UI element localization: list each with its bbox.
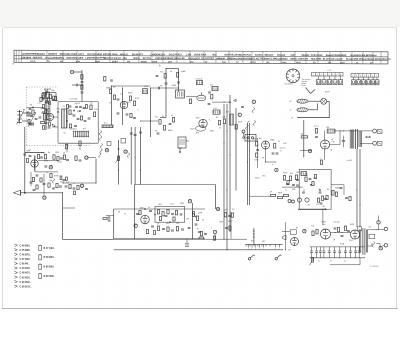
capacitor C39 (256, 149, 259, 150)
junction dot d (24, 192, 25, 193)
wire det out (266, 149, 277, 162)
label MU (27, 150, 30, 152)
resistor R84 (154, 231, 156, 235)
svg-text:P0NC: P0NC (283, 173, 288, 175)
svg-text:8N/BBm: 8N/BBm (227, 58, 236, 60)
capacitor C78 (77, 118, 80, 119)
svg-text:UE9e: UE9e (296, 172, 300, 174)
capacitor C21 (110, 80, 113, 81)
svg-text:6m/: 6m/ (190, 62, 194, 64)
capacitor C73 (65, 186, 68, 187)
dense det marks (60, 176, 67, 181)
wire conv vert c (178, 69, 180, 93)
trim arrow (28, 113, 36, 127)
transformer T3 secondary (359, 131, 361, 147)
spine blob a (43, 93, 48, 99)
resistor R22 (113, 95, 115, 99)
wire right drop a (356, 149, 358, 227)
tube V9 detector (262, 141, 270, 149)
capacitor C27 (134, 134, 137, 135)
svg-text:C 55 998/..: C 55 998/.. (20, 250, 32, 252)
svg-text:4x: 4x (344, 261, 346, 263)
svg-text:HpsM: HpsM (57, 162, 62, 164)
svg-text:6: 6 (332, 75, 333, 77)
wire conv join (151, 87, 179, 89)
wire psu left v (285, 222, 287, 250)
transformer T1 box (176, 90, 185, 98)
wire det pair a (248, 121, 250, 205)
junction dot e (118, 149, 119, 150)
tube V1 mixer (46, 113, 53, 120)
label R49t (314, 125, 319, 127)
resistor R32 (159, 120, 161, 125)
svg-text:78a: 78a (322, 206, 325, 208)
svg-text:2MD.: 2MD. (253, 139, 258, 141)
svg-text:1: 1 (279, 249, 280, 251)
wire am h (212, 101, 230, 103)
svg-text:E0: E0 (30, 105, 32, 107)
small box sw2 (121, 138, 126, 143)
svg-text:6: 6 (255, 249, 256, 251)
svg-text:a53: a53 (28, 150, 31, 152)
capacitor C81 (45, 101, 48, 102)
wire junction dots (62, 68, 361, 250)
wire top cap (324, 130, 326, 140)
svg-text:58BsTL411TP: 58BsTL411TP (247, 57, 262, 60)
label A4 mid (186, 140, 189, 143)
resistor R2 (81, 85, 83, 89)
resistor R60 (157, 226, 159, 230)
terminal pins 21 (275, 244, 280, 251)
svg-text:GpAD: GpAD (181, 70, 186, 73)
svg-text:2: 2 (356, 76, 357, 78)
small marks osc (48, 96, 55, 104)
node 11 (49, 166, 53, 170)
coil L7 (143, 89, 148, 94)
resistor R21 (109, 89, 111, 93)
switch position notes (302, 78, 311, 87)
tube V12 af amp (141, 215, 150, 224)
svg-text:4a x: 4a x (104, 122, 107, 124)
label a left margin (13, 63, 15, 66)
resistor R43 (295, 175, 297, 180)
wire node3 stub (300, 150, 312, 152)
mains switch S4 (372, 242, 375, 248)
wire term drop (214, 234, 216, 239)
wire spine h2 (52, 116, 58, 118)
label R48 (301, 134, 304, 136)
resistor R82 (40, 178, 42, 182)
svg-text:BR1: BR1 (196, 133, 199, 135)
spine blob g (43, 126, 51, 130)
rect small box (357, 227, 361, 231)
svg-text:B2GLLS9: B2GLLS9 (174, 58, 185, 60)
spine dark mid (44, 114, 49, 121)
wire return drop (62, 193, 64, 240)
wire ind right (331, 184, 344, 186)
svg-text:Vx5m: Vx5m (281, 62, 287, 64)
transformer T4 secondary (366, 230, 367, 253)
svg-text:2F: 2F (333, 240, 335, 242)
svg-text:/AET: /AET (290, 54, 296, 57)
wire audio bus thin (205, 238, 247, 240)
capacitor C17 (66, 159, 69, 160)
resistor R18 (50, 174, 52, 178)
node 14 (105, 149, 109, 153)
svg-text:L43 C84x: L43 C84x (70, 99, 78, 101)
capacitor C2 (81, 92, 84, 93)
wire osc left link (141, 120, 158, 122)
terminal comb (246, 244, 270, 246)
capacitor C8 (52, 99, 55, 100)
resistor R48 (301, 136, 308, 138)
wire plate to T3 (330, 131, 340, 145)
resistor R31 (211, 95, 213, 99)
wire node13 link (88, 157, 96, 159)
capacitor C33 (208, 92, 211, 93)
capacitor C58 (198, 231, 201, 232)
svg-text:XtBaEEX: XtBaEEX (35, 53, 45, 56)
svg-text:x4 x32: x4 x32 (347, 160, 352, 162)
label L30 (326, 127, 329, 129)
capacitor C34 (169, 123, 172, 124)
coil L8 (197, 81, 203, 85)
svg-text:LmxkH: LmxkH (335, 59, 343, 61)
svg-text:a6: a6 (170, 71, 172, 73)
bank labels (318, 261, 346, 263)
svg-text:4x 1.4: 4x 1.4 (314, 125, 319, 127)
node 16 (216, 207, 220, 211)
capacitor C40 (272, 153, 275, 154)
variable capacitor C9 gang (17, 110, 25, 125)
wire conv top link (166, 68, 179, 70)
component value labels bottom (118, 203, 371, 251)
svg-text:BSB4: BSB4 (112, 60, 118, 63)
resistor R55 (335, 192, 337, 196)
svg-text:U46K54SP2B10K: U46K54SP2B10K (155, 57, 174, 60)
svg-text:t33CE: t33CE (133, 57, 140, 60)
label inner a (75, 103, 80, 105)
capacitor C47 (296, 185, 299, 186)
resistor R11 (41, 122, 45, 124)
tube V14 psu a (321, 229, 331, 239)
capacitor C74 (73, 188, 76, 189)
wire left tall vertical (24, 127, 26, 193)
svg-text:4: 4 (324, 75, 325, 77)
mains terminal a (375, 227, 388, 230)
coil L5 hatched (62, 109, 68, 128)
resistor R3 (69, 110, 71, 114)
socket caption (285, 84, 294, 86)
hatch block mid (102, 125, 113, 128)
pot arrow p (116, 158, 120, 163)
svg-text:MKk.pUKBXe: MKk.pUKBXe (273, 58, 288, 60)
node 3b (275, 168, 278, 172)
capacitor C79 (84, 120, 87, 121)
jack S2 (253, 121, 256, 126)
label return (291, 117, 293, 119)
svg-text:UGHb1: UGHb1 (56, 57, 65, 59)
tuner shield dashed left (25, 87, 27, 146)
svg-text:4S7psE: 4S7psE (277, 54, 286, 57)
svg-text:GU71: GU71 (349, 240, 353, 242)
wire sw vert 2 (134, 127, 136, 185)
node 2 (252, 100, 255, 104)
svg-text:B 6P 000/..: B 6P 000/.. (44, 276, 56, 278)
svg-text:NKH: NKH (296, 62, 301, 64)
resistor R35 (223, 119, 225, 124)
svg-text:1k8p: 1k8p (51, 90, 55, 92)
tube socket bottom view (286, 69, 300, 83)
svg-text:DrLD47UU3: DrLD47UU3 (169, 53, 182, 56)
resistor R51 (305, 177, 307, 181)
svg-text:88KUXV: 88KUXV (264, 55, 273, 57)
svg-text:VVMe: VVMe (254, 160, 259, 162)
resistor R20 (56, 184, 58, 188)
resistor R80 (37, 155, 39, 159)
resistor R71 (77, 186, 79, 190)
resistor R28 (164, 74, 166, 79)
label 4a (104, 122, 107, 124)
x mark (272, 164, 274, 166)
svg-text:EZ81: EZ81 (350, 224, 354, 226)
svg-text:C 57 066/..: C 57 066/.. (20, 259, 32, 261)
svg-text:k4aH: k4aH (95, 60, 100, 63)
svg-text:a44 x2: a44 x2 (75, 103, 80, 105)
svg-text:C1: C1 (289, 110, 291, 112)
svg-text:69: 69 (162, 116, 164, 118)
node 7 mains (377, 216, 380, 225)
capacitor C46 (296, 179, 299, 180)
tube V15 psu b (350, 230, 359, 239)
capacitor C61 (347, 230, 350, 231)
transformer T5 hatched (230, 114, 234, 125)
transformer T3 core (355, 129, 357, 149)
resistor R92 (312, 182, 314, 186)
capacitor C89 (345, 197, 348, 198)
legend cartridge list (39, 245, 56, 279)
svg-text:XN3BTR: XN3BTR (48, 54, 58, 56)
svg-text:NE7: NE7 (262, 241, 265, 243)
capacitor C80 (74, 125, 77, 126)
junction dot a (82, 85, 83, 86)
wire ind right2 (343, 185, 345, 195)
terminal pins 456 (248, 244, 264, 251)
resistor R52 (321, 196, 323, 200)
wire sw vert 3 (140, 127, 142, 185)
svg-text:Hsm8: Hsm8 (255, 178, 259, 180)
node 15 (124, 150, 128, 154)
wire mains a (367, 224, 378, 230)
svg-text:En9: En9 (226, 112, 229, 114)
svg-text:Piste: Piste (302, 84, 306, 87)
resistor R42 (289, 176, 291, 181)
node 7 (134, 224, 137, 228)
capacitor C88 (204, 233, 207, 234)
capacitor C49 (324, 198, 327, 199)
svg-text:C 46 660/..: C 46 660/.. (20, 244, 32, 247)
wire T3 sec (361, 142, 373, 144)
small box sw1 (107, 141, 111, 145)
svg-text:7: 7 (336, 75, 337, 77)
svg-text:37: 37 (44, 90, 46, 92)
dots O5 (52, 124, 55, 127)
component value labels middle (106, 70, 242, 135)
svg-text:4: 4 (248, 249, 249, 251)
capacitor C84 (43, 183, 46, 184)
svg-text:6MRD: 6MRD (106, 88, 112, 90)
wire left stub (63, 207, 76, 209)
resistor R94 (326, 196, 328, 200)
cap bank top bus (310, 246, 366, 248)
resistor R62 (176, 227, 178, 231)
svg-text:BLx15CXK: BLx15CXK (323, 59, 335, 61)
capacitor C3 (72, 84, 82, 87)
resistor R26 (130, 114, 132, 118)
svg-text:C 99 463/..: C 99 463/.. (20, 281, 32, 284)
label L13 (196, 79, 203, 81)
capacitor C95 (302, 192, 305, 193)
svg-text:P68GG7S5br9: P68GG7S5br9 (359, 59, 375, 61)
plate number (371, 266, 380, 268)
resistor R1 (81, 75, 83, 80)
capacitor C92 (33, 189, 36, 190)
capacitor C57 (195, 224, 198, 225)
capacitor C29 (165, 83, 168, 84)
tube socket b (305, 198, 309, 202)
capacitor C1 (81, 81, 84, 82)
resistor R69 (344, 226, 346, 230)
resistor R59 (175, 211, 177, 215)
jack curve d (100, 144, 102, 149)
wire conv vert a (150, 88, 152, 137)
polarity marks (327, 70, 331, 72)
resistor R33 (163, 126, 165, 131)
label det a (280, 148, 285, 150)
capacitor C76 (69, 106, 72, 107)
svg-text:Ts: Ts (285, 190, 287, 192)
speaker terminal E2 (373, 141, 377, 145)
svg-text:xL: xL (73, 183, 75, 185)
mains terminal b (382, 244, 387, 247)
svg-text:C6: C6 (289, 101, 291, 103)
svg-text:7h/78: 7h/78 (325, 92, 330, 94)
capacitor C16 (60, 158, 63, 159)
tube socket a (297, 198, 301, 202)
capacitor C20 (59, 186, 62, 187)
svg-text:596C.PCFa9: 596C.PCFa9 (237, 55, 251, 57)
cap bank bottom bus (310, 257, 366, 259)
trim cluster (224, 212, 233, 239)
resistor R47 (284, 194, 289, 196)
capacitor C54 (162, 228, 165, 229)
page top edge (3, 27, 397, 29)
wire IF vert 1 (111, 86, 113, 126)
resistor R85 (200, 232, 202, 236)
svg-text:1: 1 (313, 75, 314, 77)
lamp LP1 (321, 98, 327, 104)
svg-text:x2: x2 (303, 190, 305, 192)
page right edge (396, 28, 398, 309)
wire node5 link (74, 71, 82, 73)
svg-text:9mkePCR: 9mkePCR (326, 55, 337, 57)
capacitor C30 (177, 82, 180, 83)
wire sw vert 4 (118, 140, 120, 185)
svg-text:TB24: TB24 (180, 203, 184, 205)
capacitor C83 (29, 155, 32, 156)
wire det h1 (38, 159, 58, 161)
label 4a2 (210, 85, 213, 87)
title table row 1 text (22, 53, 377, 58)
tube V5 mixer oval (186, 93, 206, 101)
svg-text:4x0 4x0: 4x0 4x0 (334, 222, 340, 224)
svg-text:5: 5 (263, 249, 264, 251)
svg-text:XEb: XEb (57, 109, 60, 111)
capacitor C36 (208, 103, 211, 104)
label psu t (334, 222, 340, 224)
speaker arrow left (14, 190, 63, 195)
capacitor C59 (334, 228, 337, 229)
capacitor C77 (83, 107, 86, 108)
svg-text:pG6ax9sC: pG6ax9sC (236, 58, 248, 60)
resistor R15 (57, 157, 59, 161)
wire det v3 (30, 172, 32, 186)
svg-text:4P9r: 4P9r (313, 177, 317, 180)
jack curve a (52, 179, 54, 184)
resistor R93 (314, 175, 316, 179)
label L24 (214, 108, 217, 110)
svg-text:9UGn91N-C9F2: 9UGn91N-C9F2 (66, 58, 83, 60)
resistor R65 (213, 236, 215, 240)
capacitor C93 (165, 215, 168, 216)
resistor R73 crossing (79, 141, 81, 150)
component value labels left (28, 90, 98, 185)
legend plug list (14, 244, 32, 288)
capacitor C91 (30, 182, 33, 183)
jack curve g (127, 153, 129, 158)
resistor R75 (86, 105, 88, 109)
svg-text:pCbBkRHRX: pCbBkRHRX (22, 54, 36, 56)
svg-text:1b: 1b (64, 133, 66, 135)
node 10 (43, 196, 47, 200)
wire af h (282, 186, 303, 188)
label 78a (322, 206, 325, 208)
capacitor C44 (315, 136, 318, 137)
label 786 (304, 175, 308, 177)
resistor R86 (199, 237, 203, 239)
resistor R45 (271, 194, 276, 196)
tube V6 oval (196, 126, 206, 131)
connector J3 box (245, 135, 256, 142)
resistor R4 (90, 105, 92, 110)
junction dot c (33, 107, 34, 108)
page left edge (2, 28, 4, 309)
svg-text:CrMDENCt1N: CrMDENCt1N (150, 53, 165, 56)
svg-text:aMbk9K: aMbk9K (216, 58, 225, 60)
svg-text:.x3e/: .x3e/ (122, 58, 127, 60)
svg-text:nNL2: nNL2 (158, 204, 162, 206)
wire RF spine (45, 90, 47, 130)
fuse F1 (369, 234, 375, 238)
wire vol line (192, 203, 194, 239)
capacitor C52 (180, 214, 183, 215)
capacitor C10 (29, 113, 32, 114)
node 12 (80, 184, 84, 188)
svg-text:1VF: 1VF (176, 223, 179, 225)
tube V6 osc (199, 119, 207, 127)
capacitor C4 (73, 115, 76, 116)
svg-text:653N9SD: 653N9SD (336, 55, 346, 57)
